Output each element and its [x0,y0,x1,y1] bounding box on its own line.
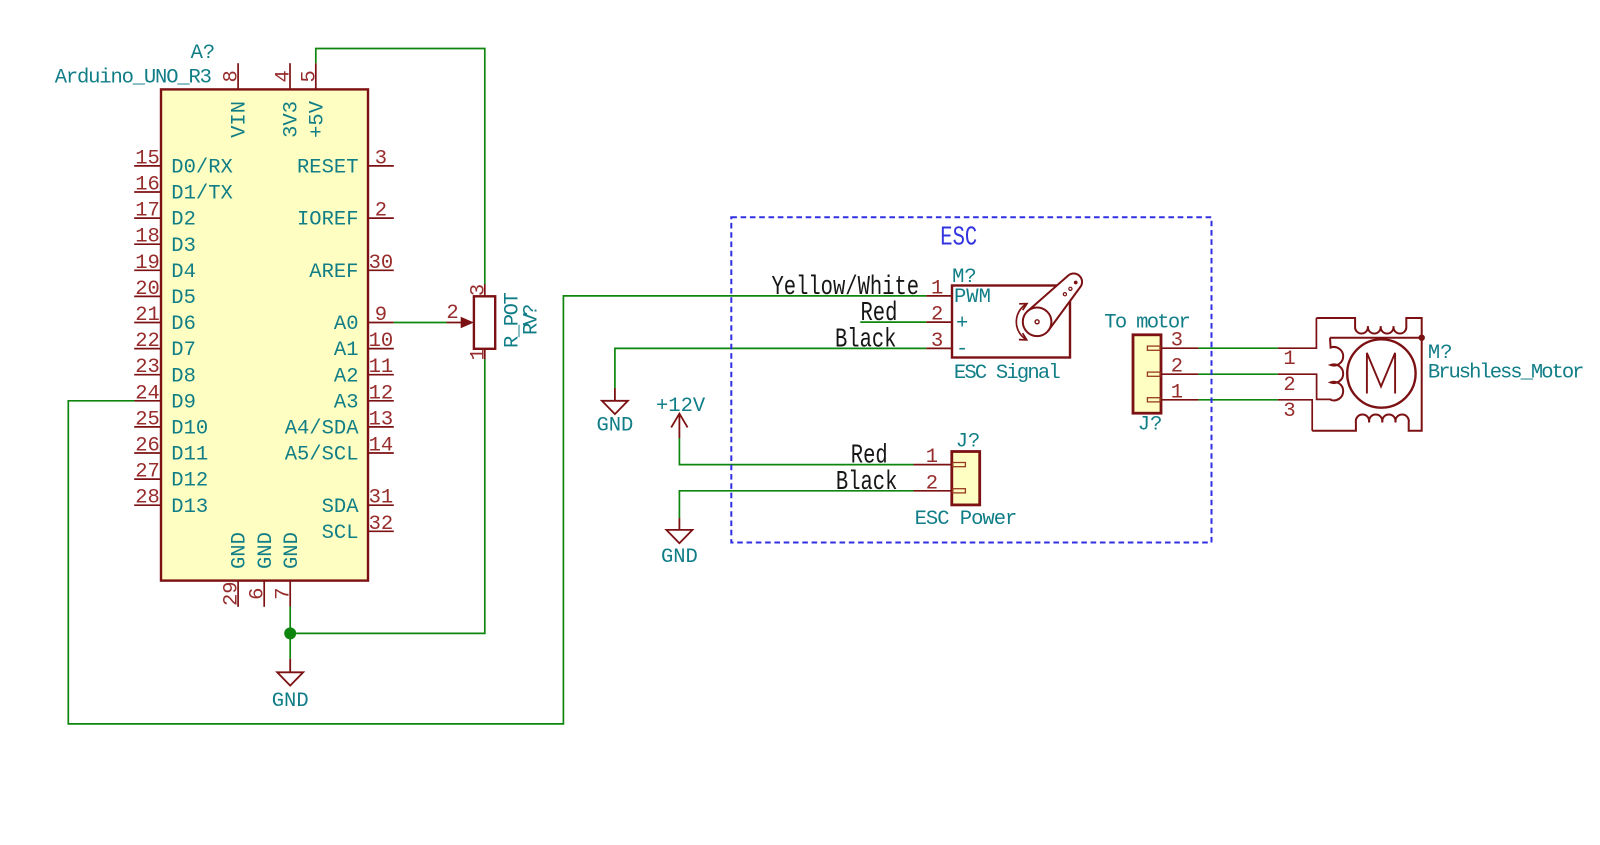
svg-text:30: 30 [369,252,394,275]
pin 28 D13 stub [134,504,161,506]
svg-text:20: 20 [135,278,160,301]
ESC power pin bar 2 [953,489,966,493]
svg-text:8: 8 [221,70,244,82]
ESC Power connector J? [914,430,1017,531]
svg-text:D10: D10 [171,418,208,441]
pot body [474,296,495,349]
svg-text:11: 11 [369,356,394,379]
pin 13 A4/SDA stub [368,426,394,428]
svg-text:M?: M? [952,266,977,289]
svg-text:23: 23 [135,356,160,379]
motor circle [1347,339,1415,407]
svg-text:A3: A3 [334,391,359,414]
pin 18 D3 stub [134,243,161,245]
svg-text:ESC: ESC [940,223,977,254]
pin 9 A0 stub [368,322,394,324]
svg-text:29: 29 [221,581,244,606]
svg-text:ESC Power: ESC Power [915,508,1017,531]
svg-text:ESC Signal: ESC Signal [954,362,1061,385]
svg-text:1: 1 [1171,381,1183,404]
motor junction dot [1419,335,1425,341]
svg-text:3: 3 [467,284,490,296]
pin 29 GND stub [237,581,239,607]
pin 6 GND stub [263,581,265,607]
svg-text:+12V: +12V [656,395,706,418]
svg-text:Brushless_Motor: Brushless_Motor [1428,362,1583,385]
svg-text:28: 28 [135,487,160,510]
svg-text:GND: GND [229,532,252,569]
svg-text:D5: D5 [171,287,196,310]
to motor pin stubs [1161,348,1198,400]
svg-text:1: 1 [1283,348,1295,371]
ESC power pin stubs [914,465,952,491]
svg-text:22: 22 [135,330,160,353]
wire To motor 1 to motor 3 [1198,399,1278,401]
svg-text:To motor: To motor [1104,312,1189,335]
svg-text:IOREF: IOREF [297,209,359,232]
svg-text:1: 1 [926,446,938,469]
servo arm dot open 2 [1063,293,1066,296]
svg-text:2: 2 [446,302,458,325]
svg-text:5: 5 [298,70,321,82]
svg-text:SDA: SDA [322,496,360,519]
svg-text:D7: D7 [171,339,196,362]
wire D9 to ESC PWM (long route) [68,296,926,724]
servo rotation arrowhead top [1019,304,1027,311]
svg-text:2: 2 [931,304,943,327]
pin 7 GND stub [289,581,291,607]
ESC Signal servo M? [926,266,1082,385]
svg-text:D6: D6 [171,313,196,336]
svg-text:2: 2 [1283,374,1295,397]
svg-text:1: 1 [467,348,490,360]
svg-text:19: 19 [135,252,160,275]
wire +12V to ESC Power pin 1 [679,438,913,465]
motor pin 1 stub [1278,318,1317,348]
svg-text:7: 7 [273,588,296,600]
svg-text:D4: D4 [171,261,196,284]
svg-text:Black: Black [835,325,896,356]
svg-text:25: 25 [135,408,160,431]
pot pin 1 stub [484,349,486,360]
svg-text:24: 24 [135,382,160,405]
svg-text:21: 21 [135,304,160,327]
pin 25 D10 stub [134,426,161,428]
svg-text:10: 10 [369,330,394,353]
svg-text:A1: A1 [334,339,359,362]
pin 27 D12 stub [134,478,161,480]
svg-text:16: 16 [135,174,160,197]
wire ESC signal pin 2 Red stub wire [860,321,926,323]
to motor body [1133,335,1161,413]
svg-text:9: 9 [375,304,387,327]
wire pot pin 1 to GND junction [290,359,485,633]
pin 23 D8 stub [134,374,161,376]
+12V power symbol [671,414,687,438]
svg-text:+: + [956,313,968,336]
pot wiper pin 2 line [447,322,464,324]
svg-text:GND: GND [255,532,278,569]
Brushless motor M? [1278,318,1583,431]
svg-text:D13: D13 [171,496,208,519]
pin 24 D9 stub [134,400,161,402]
GND power symbol below ESC power [666,518,692,543]
ESC power pin bar 1 [953,463,966,467]
pin 26 D11 stub [134,452,161,454]
pin 10 A1 stub [368,348,394,350]
svg-text:D11: D11 [171,444,208,467]
pin 3 RESET stub [368,165,394,167]
svg-text:D1/TX: D1/TX [171,183,233,206]
svg-text:RV?: RV? [521,305,544,335]
svg-text:1: 1 [931,277,943,300]
svg-text:2: 2 [375,200,387,223]
svg-text:26: 26 [135,435,160,458]
pin 8 VIN stub [237,63,239,89]
svg-text:Black: Black [836,467,897,498]
svg-text:D12: D12 [171,470,208,493]
svg-text:4: 4 [273,70,296,82]
ESC dashed group box [731,217,1211,542]
svg-text:D2: D2 [171,209,196,232]
svg-text:18: 18 [135,226,160,249]
junction at GND pin7 / pot wire [284,627,296,639]
servo rotation arrowhead bottom [1019,333,1027,340]
wire To motor 3 to motor 1 [1198,347,1278,349]
svg-text:27: 27 [135,461,160,484]
wire ESC Power pin 2 Black to GND [679,491,913,519]
svg-text:15: 15 [135,147,160,170]
servo wheel [1023,308,1052,337]
svg-text:2: 2 [1171,356,1183,379]
svg-text:PWM: PWM [954,286,991,309]
svg-text:D9: D9 [171,391,196,414]
wire +5V to pot pin 3 [316,49,485,285]
svg-text:17: 17 [135,200,160,223]
servo arm dot open 1 [1069,287,1072,290]
pin 19 D4 stub [134,269,161,271]
to motor pin bar 2 [1147,372,1160,376]
pin 31 SDA stub [368,504,394,506]
pin 4 3V3 stub [289,63,291,89]
svg-text:14: 14 [369,435,394,458]
pin 14 A5/SCL stub [368,452,394,454]
svg-text:AREF: AREF [309,261,358,284]
pin 16 D1/TX stub [134,191,161,193]
svg-text:GND: GND [281,532,304,569]
motor outline with top and bottom edges [1312,318,1422,431]
servo arm dot filled [1074,281,1078,285]
pin 11 A2 stub [368,374,394,376]
GND power symbol below arduino [277,659,303,686]
svg-text:J?: J? [1138,414,1163,437]
servo arm [1028,274,1082,331]
svg-text:D0/RX: D0/RX [171,157,233,180]
motor pin 2 stub [1278,374,1332,399]
to motor pin bar 3 [1147,346,1160,350]
ESC power body [952,452,980,505]
ESC signal body [952,286,1070,358]
pot wiper arrowhead [461,317,474,329]
svg-text:GND: GND [596,415,633,438]
svg-text:D3: D3 [171,235,196,258]
motor left coil [1330,338,1343,401]
servo rotation arc [1016,304,1027,340]
motor inner line to right edge [1330,337,1422,339]
svg-text:GND: GND [272,690,309,713]
wire GND pin 7 down [289,607,291,659]
svg-text:32: 32 [369,513,394,536]
svg-text:13: 13 [369,408,394,431]
GND power symbol at ESC signal black [602,388,628,414]
svg-text:A4/SDA: A4/SDA [285,418,360,441]
svg-text:A?: A? [191,42,216,65]
pin 32 SCL stub [368,530,394,532]
pin 17 D2 stub [134,217,161,219]
svg-text:-: - [956,338,968,361]
svg-text:RESET: RESET [297,157,359,180]
pin 2 IOREF stub [368,217,394,219]
svg-text:GND: GND [661,546,698,569]
svg-text:2: 2 [926,472,938,495]
wire ESC signal pin 3 Black to GND [615,348,926,388]
svg-text:31: 31 [369,487,394,510]
wire A0 to pot wiper [394,322,447,324]
svg-text:6: 6 [247,588,270,600]
svg-text:+5V: +5V [306,100,329,138]
svg-text:3V3: 3V3 [281,101,304,138]
pin 15 D0/RX stub [134,165,161,167]
pot pin 3 stub [484,284,486,297]
svg-text:A2: A2 [334,365,359,388]
pin 20 D5 stub [134,295,161,297]
pin 30 AREF stub [368,269,394,271]
pin 12 A3 stub [368,400,394,402]
to motor pin bar 1 [1147,398,1160,402]
wire To motor 2 to motor 2 [1198,373,1278,375]
motor pin 3 stub [1278,400,1312,431]
servo wheel center dot [1035,320,1039,324]
motor top edge and top coil [1312,318,1422,431]
pin 21 D6 stub [134,322,161,324]
svg-text:A5/SCL: A5/SCL [285,444,359,467]
svg-text:3: 3 [931,330,943,353]
ESC signal pin stubs [926,296,952,349]
pin 22 D7 stub [134,348,161,350]
svg-text:SCL: SCL [322,522,359,545]
svg-text:A0: A0 [334,313,359,336]
To motor connector J? [1104,312,1198,437]
svg-text:D8: D8 [171,365,196,388]
svg-text:J?: J? [956,430,981,453]
svg-text:Arduino_UNO_R3: Arduino_UNO_R3 [55,67,211,90]
motor M glyph [1367,353,1395,394]
Arduino UNO R3 module U A? [55,42,394,607]
pin 5 +5V stub [315,63,317,89]
svg-text:12: 12 [369,382,394,405]
arduino body [161,89,368,580]
svg-text:VIN: VIN [229,101,252,138]
svg-text:3: 3 [1283,400,1295,423]
potentiometer RV? R_POT [446,284,543,361]
svg-text:3: 3 [375,147,387,170]
